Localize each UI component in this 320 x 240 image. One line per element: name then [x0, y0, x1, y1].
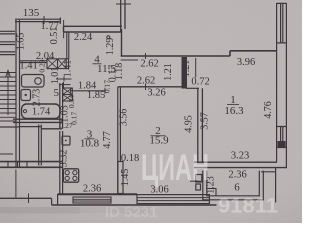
svg-text:ЦИАН: ЦИАН	[141, 147, 209, 188]
lower-left boundary band	[0, 162, 62, 168]
pier blocks left of balcony	[196, 175, 202, 183]
vent shaft 1	[47, 59, 69, 69]
room4 top wall	[64, 26, 123, 32]
partition continuing down to niche	[121, 29, 123, 57]
bathroom right wall	[60, 83, 63, 129]
short wall tick at bath SE	[59, 84, 71, 86]
vent shaft 2	[63, 88, 73, 101]
balcony outer frame	[203, 171, 263, 200]
balcony door notch	[206, 189, 216, 197]
stairs arrow	[6, 71, 11, 116]
kitchen window	[73, 197, 111, 203]
balcony inner frame	[207, 171, 259, 196]
kitchen left wall	[60, 131, 63, 194]
kitchen entry step wall	[41, 128, 62, 130]
stairs landing edge	[0, 126, 19, 128]
niche top long line with step	[121, 51, 277, 56]
svg-text:ID 5231: ID 5231	[105, 204, 158, 221]
door lintel tick above bathroom wall	[56, 78, 72, 80]
door hinge circle	[107, 36, 110, 39]
lower-left vertical line	[15, 170, 17, 198]
tick crossing room1 left wall	[190, 180, 201, 182]
wall right of vestibule	[67, 32, 69, 59]
closet right wall	[39, 125, 42, 166]
building wall top going to edge	[121, 0, 125, 32]
tick crossing line B	[145, 84, 147, 91]
tick on vestibule top wall	[43, 16, 45, 24]
tick right end of 1.77	[59, 18, 61, 25]
stairs lower short line	[0, 153, 13, 155]
bathtub	[22, 104, 61, 119]
left edge corridor walls	[0, 31, 15, 54]
niche second line	[121, 59, 138, 61]
thin tick line right of pier	[195, 58, 197, 78]
window sill line	[52, 204, 217, 206]
sink	[22, 75, 45, 88]
left outer wall	[16, 20, 20, 167]
niche wall pier (dark)	[182, 57, 188, 89]
kitchen bottom wall	[58, 193, 137, 195]
niche lower line B	[118, 86, 182, 88]
stairs steps	[0, 73, 16, 122]
bathroom bottom wall	[13, 119, 62, 122]
bottom-left boundary line	[0, 197, 52, 199]
vestibule right line	[63, 20, 65, 38]
scan shadow band bottom-left	[0, 207, 80, 214]
stove	[63, 169, 78, 182]
watermark	[105, 147, 278, 221]
hall dimension line 1.84/1.85	[71, 90, 106, 92]
bathroom top wall	[20, 61, 47, 63]
toilet	[21, 90, 31, 101]
threshold 0.72	[186, 87, 199, 89]
tick crossing top building wall	[116, 3, 131, 5]
building edge below room1	[275, 167, 277, 203]
room2 left / kitchen right wall	[118, 87, 121, 194]
vestibule top wall	[15, 19, 61, 21]
wall between room2 and room1	[198, 88, 203, 163]
room1 bottom wall	[194, 162, 287, 167]
right outer wall with windows	[277, 3, 287, 168]
pier between kitchen and room2 windows	[118, 162, 123, 194]
washing machine box	[62, 136, 70, 145]
closet top wall	[19, 126, 42, 128]
tick crossing niche top line	[145, 53, 147, 59]
room2 window	[137, 195, 209, 204]
svg-text:91811: 91811	[218, 195, 278, 218]
